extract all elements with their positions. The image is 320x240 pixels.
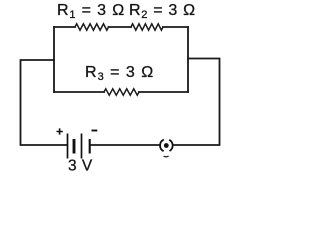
svg-text:3 V: 3 V: [68, 158, 93, 175]
svg-text:R1 = 3 Ω: R1 = 3 Ω: [57, 2, 125, 21]
svg-text:R2 = 3 Ω: R2 = 3 Ω: [129, 2, 196, 21]
svg-text:R3 = 3 Ω: R3 = 3 Ω: [85, 64, 154, 83]
